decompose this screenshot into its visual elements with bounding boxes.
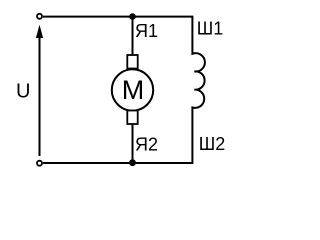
svg-text:Ш1: Ш1 <box>197 19 224 39</box>
svg-text:Я2: Я2 <box>135 135 158 155</box>
svg-text:U: U <box>16 81 30 103</box>
svg-text:M: M <box>122 75 145 105</box>
svg-text:Я1: Я1 <box>135 21 158 41</box>
svg-text:Ш2: Ш2 <box>199 134 226 154</box>
